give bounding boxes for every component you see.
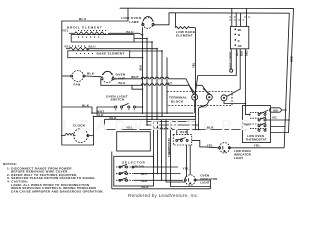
svg-text:TO FAN: TO FAN [135, 165, 145, 169]
wire bus vertical 4 [156, 49, 158, 120]
svg-text:BLK: BLK [180, 130, 188, 134]
selector L wire 2 [158, 120, 181, 174]
svg-text:BLK: BLK [142, 185, 150, 189]
svg-text:BLOCK: BLOCK [171, 99, 184, 103]
contact row C/NO [258, 113, 260, 115]
wire clock right up to rail [89, 116, 94, 135]
broil element sheath box [71, 35, 134, 42]
svg-text:RED: RED [200, 105, 208, 109]
broil inner marks [78, 36, 99, 38]
wire bake right to bus [87, 48, 157, 50]
resistor broil zigzag [75, 32, 106, 35]
notice block [3, 162, 104, 193]
svg-text:BLK: BLK [138, 65, 142, 71]
wire left vertical main [61, 21, 63, 145]
svg-text:WHT: WHT [166, 82, 172, 86]
stadium NO [270, 108, 282, 112]
svg-text:SELECTOR: SELECTOR [122, 160, 146, 164]
svg-text:Rendered by LeadVenture, Inc.: Rendered by LeadVenture, Inc. [128, 193, 199, 198]
rail WHT slant to terminal 1 [169, 79, 194, 95]
svg-text:BLK: BLK [87, 72, 95, 76]
lamp low oven (dashed bulb) [143, 18, 154, 29]
empty loop rect [117, 132, 151, 151]
svg-text:BLU: BLU [79, 17, 87, 21]
wire bake box bottom to bus [130, 57, 143, 59]
bake element lead yel [66, 48, 70, 50]
svg-text:YEL: YEL [62, 29, 69, 33]
svg-text:BLU: BLU [141, 172, 146, 176]
clock motor dashed [74, 129, 88, 143]
wire bus vertical 5 [161, 51, 163, 116]
svg-text:BARE COPPER: BARE COPPER [229, 51, 232, 69]
svg-text:BLK: BLK [110, 116, 118, 120]
terminal 1 [192, 94, 198, 100]
svg-text:WHT: WHT [235, 50, 239, 56]
fan motor dashed [72, 70, 83, 81]
terminal 2 [206, 94, 212, 100]
svg-text:TMR: TMR [243, 122, 250, 126]
svg-text:LIGHT: LIGHT [200, 181, 210, 185]
svg-text:BAKE ELEMENT: BAKE ELEMENT [97, 52, 125, 56]
rail BLK slant to terminal 2 [169, 85, 196, 94]
thermostat contact rows dashed [250, 113, 267, 129]
low oven indicator light dashed [219, 143, 229, 153]
rail h2 [94, 115, 196, 117]
svg-text:NC: NC [272, 116, 277, 120]
svg-text:YEL: YEL [183, 167, 190, 171]
wire broil box bottom to bus [134, 41, 152, 43]
bake element sheath box [68, 51, 130, 58]
svg-text:WHT: WHT [131, 75, 139, 79]
svg-text:YEL: YEL [64, 45, 71, 49]
svg-text:BLK: BLK [119, 81, 127, 85]
contact row NC [258, 119, 260, 121]
rail h3 [105, 118, 196, 120]
wire bus vertical 3 [151, 42, 153, 122]
wire bus vertical 1 [142, 35, 144, 113]
wire bus vertical 6 [166, 58, 168, 113]
svg-text:THERMOSTAT: THERMOSTAT [167, 138, 171, 157]
svg-text:BLU: BLU [126, 30, 134, 34]
wire top border outer [120, 8, 294, 132]
wire oven indicator right [196, 179, 210, 181]
wire low bake right vertical (YEL) [195, 28, 197, 130]
wire top border inner [169, 13, 289, 127]
svg-text:SWITCH: SWITCH [111, 97, 125, 101]
wire switch left stub [97, 107, 115, 113]
svg-text:BLK: BLK [239, 51, 243, 56]
wire thermostat top BLK [176, 130, 178, 135]
contact row B [258, 129, 260, 131]
svg-text:BLU: BLU [89, 44, 97, 48]
thermostat dashed box [173, 135, 191, 145]
resistor low bake zigzag [175, 13, 177, 28]
selector contacts row1 [116, 166, 134, 168]
svg-text:YEL: YEL [207, 143, 214, 147]
wire bake box top to bus [130, 50, 162, 52]
selector L wire 4 [166, 120, 186, 182]
svg-text:YEL: YEL [191, 62, 195, 68]
node lamp feed [142, 28, 144, 36]
svg-text:BLK: BLK [207, 126, 215, 130]
svg-text:RED: RED [290, 56, 294, 62]
terminal block dashed box [167, 92, 232, 106]
wire fan row [62, 75, 71, 77]
wire thermostat right to indicator [192, 140, 205, 147]
power terminal box [230, 26, 248, 48]
wire blk stub to switch area [132, 85, 143, 89]
oven indicator light dashed [185, 175, 195, 185]
svg-text:BLK: BLK [97, 113, 105, 117]
wire terminal2 down slant [199, 100, 210, 129]
wire broil box mid to bus [134, 38, 147, 40]
bake terminal marks [72, 45, 85, 47]
wire thermostat bottom feeds [185, 145, 187, 178]
svg-text:RED: RED [141, 179, 147, 183]
wire terminal3 to power [224, 101, 245, 104]
svg-text:CAN CAUSE IMPROPER AND DANGERO: CAN CAUSE IMPROPER AND DANGEROUS OPERATI… [11, 189, 104, 193]
svg-text:BK: BK [238, 28, 242, 32]
wire yel mid vertical [104, 119, 106, 129]
wire right inner to thermostat mid [281, 109, 286, 111]
selector contacts row2 [116, 173, 134, 175]
wires below power box [239, 49, 241, 86]
power feed tick labels [230, 17, 250, 20]
wire yel into low oven indicator [205, 146, 219, 149]
rail hops BLK over bus [141, 84, 144, 86]
wire selector left drop [111, 152, 113, 189]
wire left branch BLK [62, 107, 92, 113]
selector L wire 3 [162, 120, 184, 180]
svg-text:THERMOSTAT: THERMOSTAT [246, 138, 267, 142]
wires into power box [231, 8, 233, 26]
selector L wire 5 bottom [171, 120, 211, 187]
clock coil [62, 134, 76, 136]
svg-text:CLOCK: CLOCK [73, 123, 86, 127]
wire bottom rail [112, 188, 211, 190]
wire low oven indicator right [230, 147, 284, 149]
svg-text:LEADVENTURE: LEADVENTURE [62, 117, 257, 134]
selector switch box [114, 156, 154, 186]
wire lamp right to inner border [154, 13, 169, 25]
rail h1 [92, 112, 194, 114]
wire thermostat C feed [245, 111, 250, 115]
svg-text:NO: NO [273, 108, 278, 112]
wire switch right stub [136, 106, 143, 108]
resistor bake zigzag [70, 47, 89, 50]
rail h4 [147, 121, 196, 123]
wire terminal1 down [194, 100, 196, 113]
low oven thermostat box [243, 106, 271, 143]
rail h5 [147, 124, 199, 126]
svg-text:ELEMENT: ELEMENT [176, 34, 193, 38]
rail yel-blk with hops [105, 129, 152, 131]
bake inner marks [76, 52, 93, 54]
lamp oven (dashed bulb) [102, 71, 113, 82]
wire oven lamp right WHT rail [114, 78, 143, 80]
wire power neutral to terminal 3 [195, 49, 236, 94]
selector contacts row3 [116, 179, 134, 181]
contact row TMR [258, 125, 260, 127]
rail from power box to terminal 3 [226, 85, 240, 96]
svg-text:FAN: FAN [74, 83, 82, 87]
rail BLK fork to terminal 2 [196, 85, 209, 94]
wire bus vertical 2 [146, 39, 148, 126]
svg-text:RED: RED [244, 50, 248, 56]
svg-text:LIGHT: LIGHT [234, 156, 244, 160]
svg-text:YEL: YEL [254, 144, 261, 148]
broil element leads [69, 32, 75, 34]
svg-text:LAMP: LAMP [116, 76, 126, 80]
broil terminal marks [78, 29, 106, 31]
wire top-left BLU run [62, 8, 128, 21]
svg-text:GR: GR [238, 44, 242, 48]
selector L wire 1 [154, 120, 179, 167]
terminal 3 [221, 95, 227, 101]
svg-text:YEL: YEL [126, 126, 133, 130]
rail hops WHT over bus [141, 77, 144, 79]
wire oven lamp left down BLK rail [101, 80, 143, 86]
oven light switch [115, 106, 117, 108]
svg-text:BROIL ELEMENT: BROIL ELEMENT [67, 26, 103, 30]
wire bottom-left long run [62, 136, 94, 146]
svg-text:R: R [238, 39, 240, 43]
wire right outer to thermostat bottom [271, 132, 288, 134]
svg-text:BLK: BLK [82, 103, 90, 107]
svg-text:LAMP: LAMP [129, 20, 139, 24]
ground bare copper terminal [230, 69, 233, 72]
